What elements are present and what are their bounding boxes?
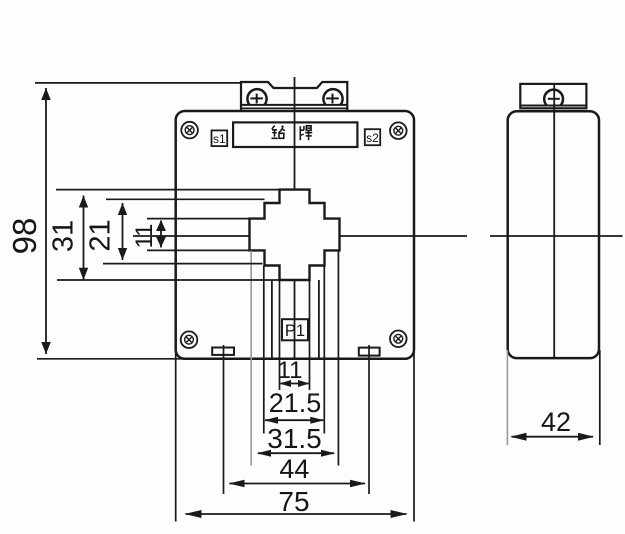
column wall left below window xyxy=(271,280,273,359)
dimension 42 xyxy=(512,436,594,438)
svg-text:31.5: 31.5 xyxy=(267,423,322,454)
extension line 42 right xyxy=(599,350,601,445)
side view centre line xyxy=(553,84,555,358)
stepped window aperture xyxy=(250,190,340,280)
mounting slot right xyxy=(359,348,380,356)
svg-text:75: 75 xyxy=(278,486,309,517)
dimension 31.5 xyxy=(258,452,334,454)
left extension line 31 bottom xyxy=(57,279,280,281)
top extension line for 98 xyxy=(35,82,241,84)
extension line window w31.5 left xyxy=(250,251,252,466)
svg-text:s2: s2 xyxy=(366,131,379,145)
dimension 31 xyxy=(83,196,85,280)
left extension line 31 top xyxy=(56,189,280,191)
extension line slot pitch left xyxy=(223,345,225,494)
terminal screw left xyxy=(247,89,266,105)
extension line slot pitch right xyxy=(368,345,370,494)
svg-text:P1: P1 xyxy=(285,322,305,340)
s1 terminal box xyxy=(212,130,228,146)
horizontal centre line right segment xyxy=(490,235,623,237)
extension line window w11 left xyxy=(279,280,281,390)
extension line body width right xyxy=(413,348,415,522)
side terminal screw xyxy=(544,90,563,106)
side view body xyxy=(508,111,599,358)
left extension line 11 top xyxy=(147,218,250,220)
nameplate character ming xyxy=(272,126,285,139)
horizontal centre line middle segment xyxy=(340,235,468,237)
svg-text:11: 11 xyxy=(131,224,158,249)
svg-text:42: 42 xyxy=(541,407,571,437)
extension line body width left xyxy=(175,348,177,522)
svg-text:11: 11 xyxy=(278,357,303,384)
extension line window w11 right xyxy=(309,280,311,390)
extension line window w21.5 left xyxy=(263,266,265,434)
left extension line 11 bottom xyxy=(147,249,250,251)
corner screw top-left xyxy=(181,122,198,139)
svg-text:98: 98 xyxy=(6,218,43,255)
s2 terminal box xyxy=(365,129,380,145)
front view body xyxy=(176,111,414,359)
extension line window w21.5 right xyxy=(323,266,325,434)
vertical centre line (above window) xyxy=(294,77,296,190)
terminal block (front, top) xyxy=(241,82,347,111)
side view terminal block xyxy=(520,84,586,108)
mounting slot left xyxy=(212,348,234,355)
svg-text:21: 21 xyxy=(85,219,117,251)
dimension 21.5 xyxy=(265,419,323,421)
terminal block bottom edge xyxy=(241,107,347,109)
left extension line 21 bottom xyxy=(103,263,263,265)
dimension 75 xyxy=(186,513,407,515)
nameplate character pai xyxy=(300,126,312,140)
P1 wire box xyxy=(282,319,308,340)
svg-text:44: 44 xyxy=(279,454,309,484)
extension line window w31.5 right xyxy=(337,251,339,466)
dimension 11 (left) xyxy=(160,221,162,248)
vertical centre line (below window) xyxy=(294,280,296,359)
corner screw bottom-right xyxy=(390,331,407,348)
svg-text:s1: s1 xyxy=(213,132,226,146)
corner screw top-right xyxy=(390,122,407,139)
svg-text:31: 31 xyxy=(48,220,80,252)
dimension 98 xyxy=(45,88,47,354)
column wall right below window xyxy=(318,280,320,359)
dimension 21 xyxy=(122,203,124,260)
dimension 11 (bottom) xyxy=(281,383,309,385)
horizontal centre line left segment xyxy=(133,235,250,237)
svg-text:21.5: 21.5 xyxy=(269,388,322,418)
corner screw bottom-left xyxy=(181,331,198,348)
left extension line 21 top xyxy=(106,198,265,200)
dimension 44 xyxy=(230,483,366,485)
extension line 42 left xyxy=(506,350,508,445)
nameplate box xyxy=(233,122,357,147)
bottom extension line for 98 xyxy=(37,358,192,360)
terminal block base line xyxy=(241,104,347,106)
terminal screw right xyxy=(323,89,342,105)
